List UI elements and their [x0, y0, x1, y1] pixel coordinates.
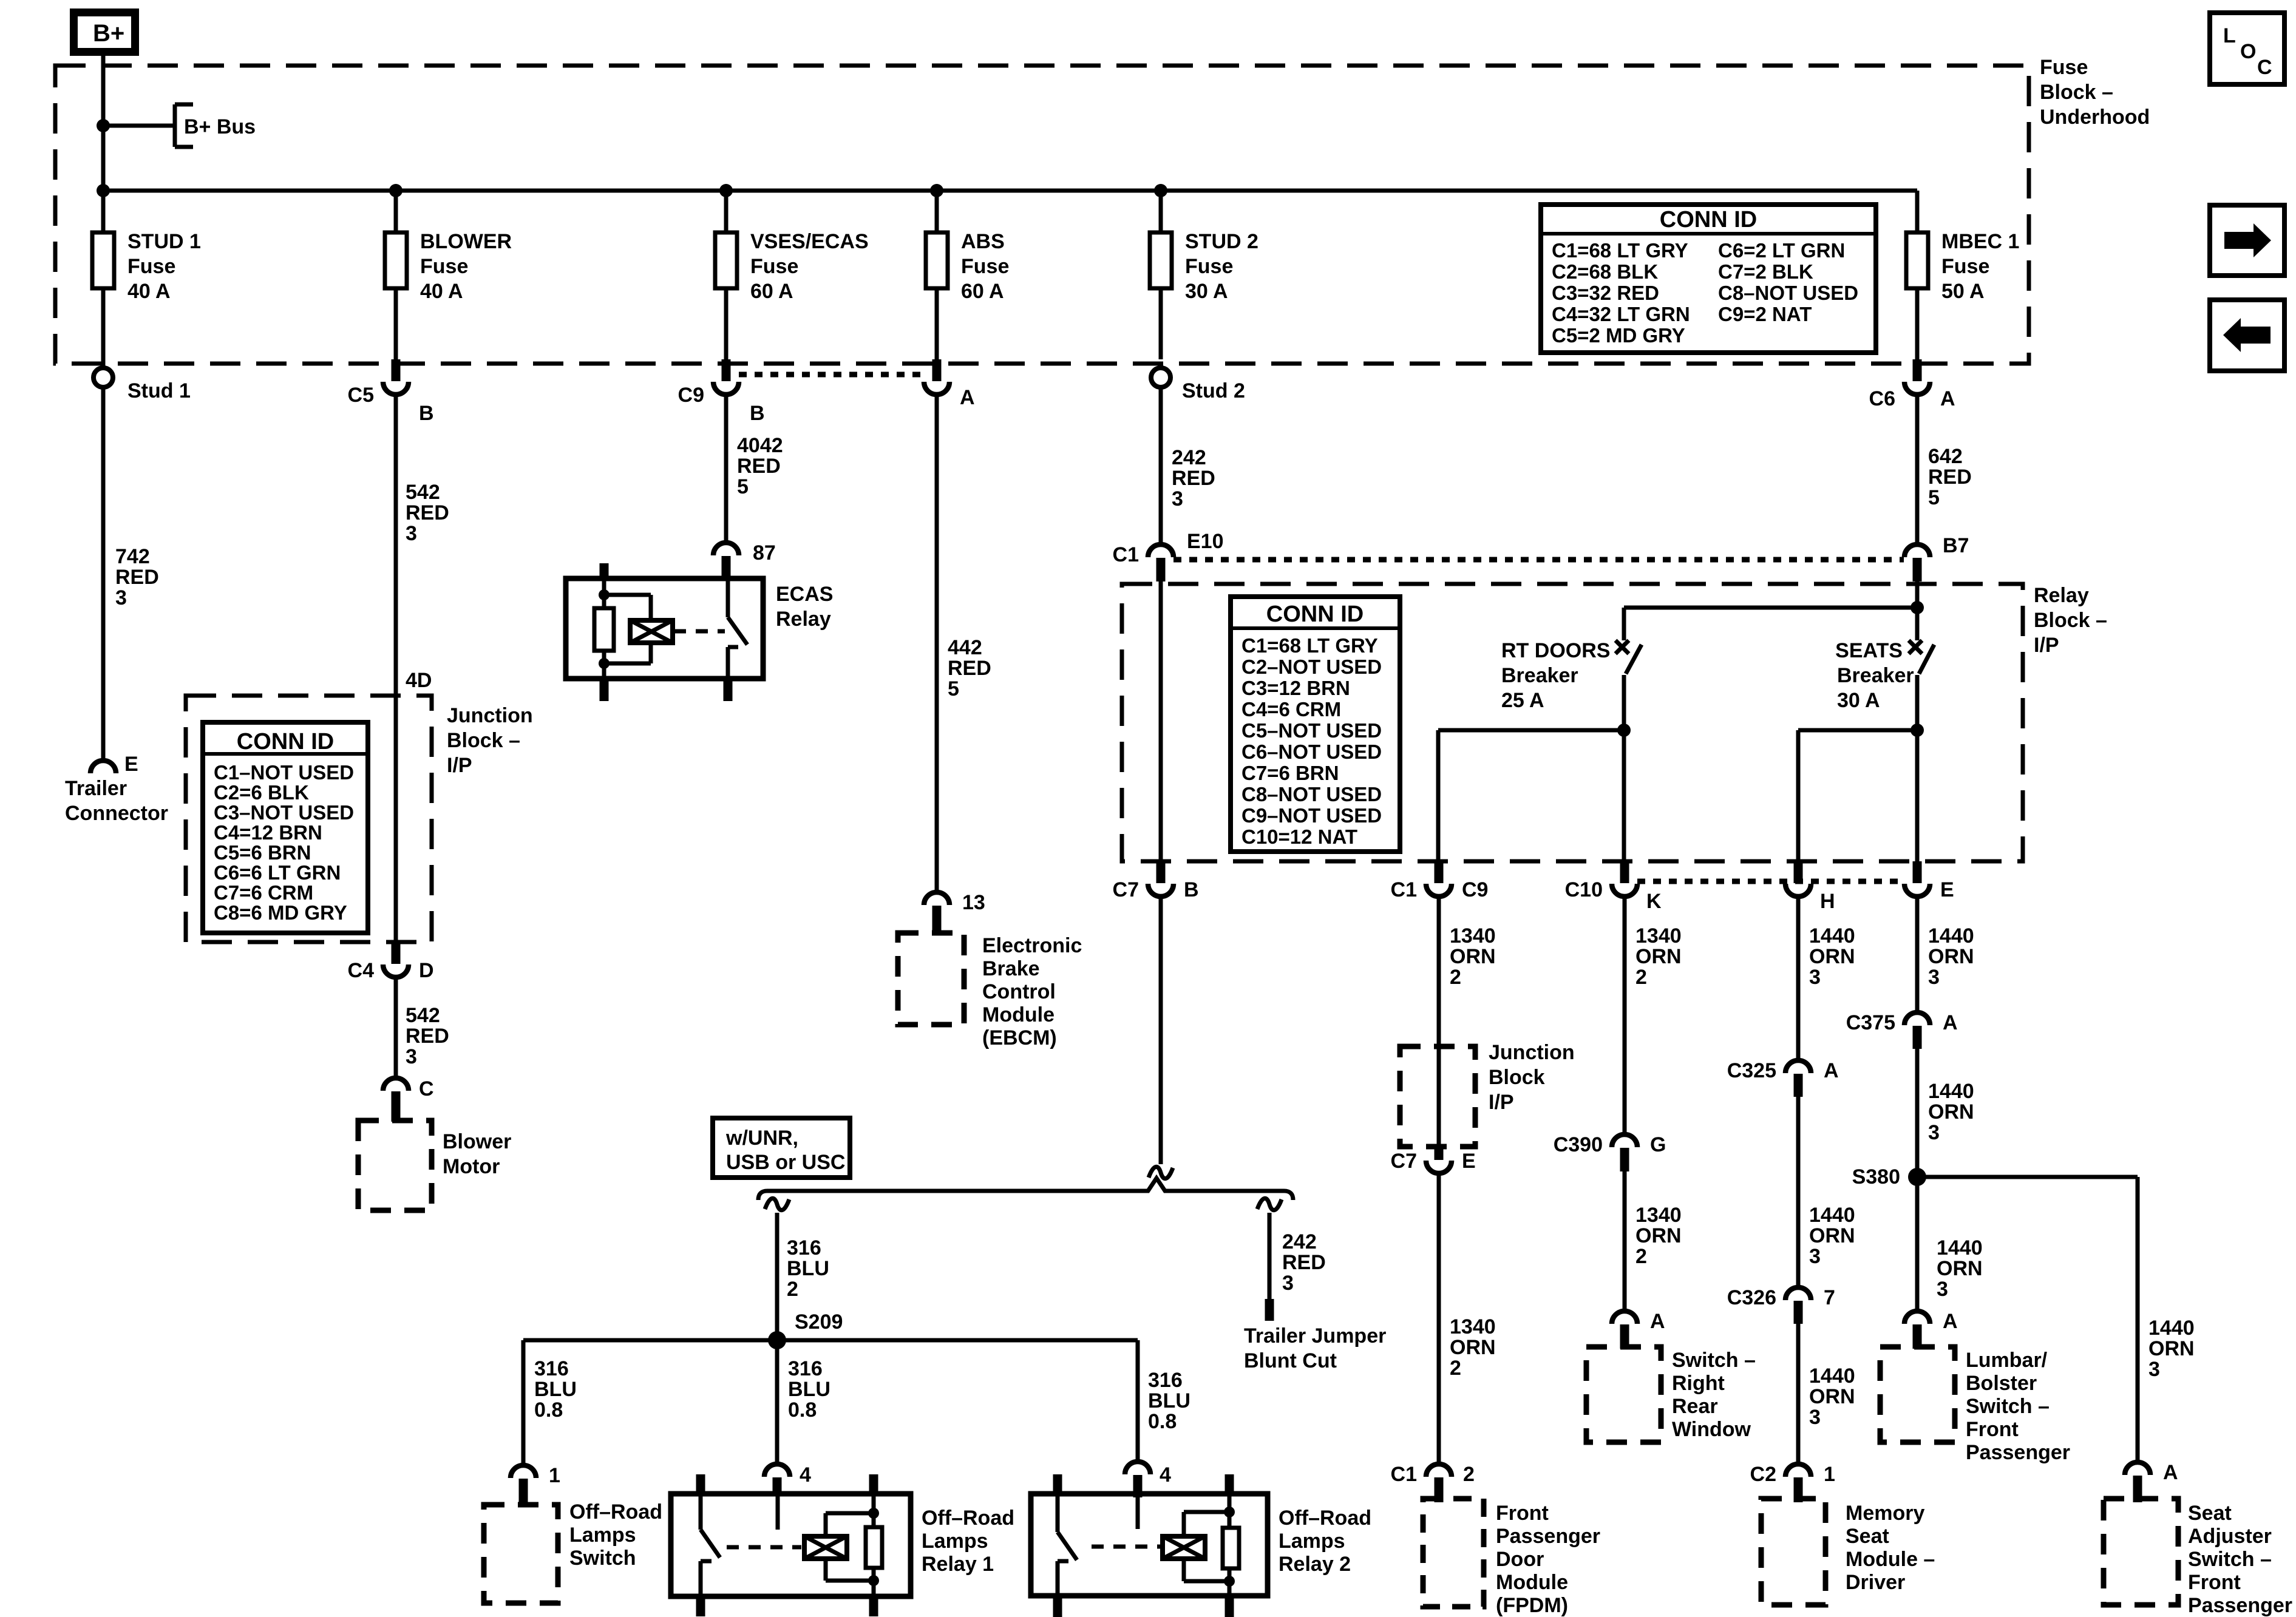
svg-text:0.8: 0.8 [1148, 1410, 1177, 1433]
svg-text:C8–NOT USED: C8–NOT USED [1718, 282, 1858, 304]
svg-text:G: G [1650, 1133, 1666, 1156]
svg-text:C1: C1 [1391, 878, 1417, 901]
svg-text:Blunt Cut: Blunt Cut [1244, 1349, 1337, 1372]
svg-text:E: E [124, 753, 138, 776]
svg-text:RED: RED [115, 566, 159, 589]
svg-text:60 A: 60 A [961, 280, 1004, 303]
svg-text:4: 4 [1160, 1463, 1171, 1486]
svg-text:ABS: ABS [961, 230, 1005, 253]
svg-text:BLU: BLU [787, 1257, 829, 1280]
svg-text:I/P: I/P [1489, 1091, 1514, 1114]
svg-text:Relay 2: Relay 2 [1279, 1553, 1351, 1576]
svg-text:40 A: 40 A [420, 280, 463, 303]
svg-text:0.8: 0.8 [534, 1398, 563, 1422]
svg-text:Brake: Brake [982, 957, 1040, 980]
svg-text:1440: 1440 [1809, 1204, 1855, 1227]
svg-text:E: E [1462, 1150, 1476, 1173]
svg-text:Switch –: Switch – [1966, 1395, 2050, 1418]
svg-text:C1–NOT USED: C1–NOT USED [214, 761, 354, 784]
svg-text:E10: E10 [1187, 530, 1224, 553]
svg-text:Block –: Block – [447, 729, 520, 752]
svg-text:1440: 1440 [1809, 1364, 1855, 1388]
svg-text:RED: RED [1928, 466, 1972, 489]
svg-text:C7: C7 [1391, 1150, 1417, 1173]
svg-text:1340: 1340 [1450, 924, 1496, 947]
svg-text:5: 5 [737, 475, 749, 498]
svg-text:30 A: 30 A [1185, 280, 1228, 303]
svg-text:CONN ID: CONN ID [237, 729, 334, 754]
svg-text:C4=32 LT GRN: C4=32 LT GRN [1552, 303, 1690, 325]
svg-text:3: 3 [2148, 1358, 2160, 1381]
svg-text:CONN ID: CONN ID [1266, 602, 1364, 627]
svg-text:4D: 4D [406, 669, 432, 692]
svg-text:RED: RED [948, 657, 991, 680]
svg-text:Connector: Connector [65, 802, 168, 825]
svg-text:ORN: ORN [1635, 1224, 1682, 1247]
svg-text:ORN: ORN [1928, 1100, 1974, 1124]
svg-text:RED: RED [1282, 1251, 1326, 1274]
svg-text:MBEC 1: MBEC 1 [1941, 230, 2019, 253]
svg-text:Off–Road: Off–Road [569, 1500, 662, 1524]
svg-text:Breaker: Breaker [1501, 664, 1578, 687]
svg-text:Right: Right [1672, 1372, 1725, 1395]
svg-text:316: 316 [1148, 1369, 1183, 1392]
svg-text:C2: C2 [1750, 1463, 1776, 1486]
svg-text:442: 442 [948, 636, 982, 659]
svg-text:C10: C10 [1565, 878, 1603, 901]
svg-text:60 A: 60 A [750, 280, 793, 303]
svg-text:RED: RED [406, 1025, 449, 1048]
svg-text:(EBCM): (EBCM) [982, 1026, 1057, 1049]
svg-text:Underhood: Underhood [2040, 106, 2150, 129]
svg-text:RED: RED [737, 455, 781, 478]
svg-text:(FPDM): (FPDM) [1496, 1594, 1568, 1617]
svg-text:40 A: 40 A [127, 280, 171, 303]
svg-text:C1=68 LT GRY: C1=68 LT GRY [1241, 634, 1378, 657]
svg-text:C: C [419, 1077, 434, 1100]
svg-text:Lamps: Lamps [1279, 1530, 1345, 1553]
svg-text:Stud 1: Stud 1 [127, 379, 191, 402]
svg-text:ORN: ORN [1450, 1336, 1496, 1359]
svg-text:C375: C375 [1846, 1011, 1895, 1034]
svg-text:C326: C326 [1727, 1286, 1776, 1309]
svg-text:C1: C1 [1113, 543, 1139, 566]
svg-text:Seat: Seat [2188, 1502, 2232, 1525]
svg-text:Block –: Block – [2034, 609, 2107, 632]
svg-text:Window: Window [1672, 1418, 1751, 1441]
svg-text:1440: 1440 [1937, 1236, 1983, 1259]
svg-text:C6=2 LT GRN: C6=2 LT GRN [1718, 239, 1845, 262]
svg-text:Driver: Driver [1846, 1571, 1905, 1594]
svg-text:Front: Front [1496, 1502, 1549, 1525]
svg-text:Front: Front [2188, 1571, 2241, 1594]
svg-text:C: C [2257, 56, 2272, 79]
svg-text:Electronic: Electronic [982, 934, 1082, 957]
svg-text:C390: C390 [1554, 1133, 1603, 1156]
svg-text:C7=2 BLK: C7=2 BLK [1718, 260, 1813, 283]
svg-text:Module: Module [1496, 1571, 1568, 1594]
svg-text:A: A [1943, 1310, 1958, 1333]
svg-text:Block –: Block – [2040, 81, 2113, 104]
svg-text:50 A: 50 A [1941, 280, 1985, 303]
svg-text:87: 87 [753, 541, 776, 564]
svg-text:Module –: Module – [1846, 1548, 1935, 1571]
svg-text:C2=6 BLK: C2=6 BLK [214, 781, 309, 804]
svg-text:Relay: Relay [776, 608, 831, 631]
svg-text:1340: 1340 [1635, 1204, 1682, 1227]
svg-text:ORN: ORN [1635, 945, 1682, 968]
svg-text:RED: RED [406, 501, 449, 524]
svg-text:S380: S380 [1852, 1165, 1900, 1188]
svg-text:Block: Block [1489, 1066, 1545, 1089]
svg-text:L: L [2223, 24, 2236, 47]
svg-text:1340: 1340 [1635, 924, 1682, 947]
svg-text:C9: C9 [1462, 878, 1488, 901]
svg-text:B: B [750, 402, 765, 425]
svg-text:3: 3 [1809, 1406, 1821, 1429]
svg-text:USB or USC: USB or USC [726, 1151, 845, 1174]
svg-text:642: 642 [1928, 445, 1963, 468]
svg-text:Relay: Relay [2034, 584, 2089, 607]
svg-text:C7=6 BRN: C7=6 BRN [1241, 762, 1339, 784]
svg-text:2: 2 [1635, 966, 1647, 989]
svg-text:3: 3 [406, 1045, 417, 1068]
svg-text:3: 3 [1172, 487, 1183, 510]
svg-text:542: 542 [406, 1004, 440, 1027]
svg-text:Lamps: Lamps [569, 1524, 636, 1547]
svg-text:242: 242 [1282, 1230, 1317, 1253]
svg-text:Blower: Blower [443, 1130, 511, 1153]
svg-text:C1=68 LT GRY: C1=68 LT GRY [1552, 239, 1688, 262]
svg-text:STUD 1: STUD 1 [127, 230, 201, 253]
svg-text:Fuse: Fuse [127, 255, 175, 278]
svg-text:3: 3 [1282, 1272, 1294, 1295]
svg-text:C4: C4 [348, 959, 375, 982]
svg-text:13: 13 [962, 891, 985, 914]
svg-text:B: B [419, 402, 434, 425]
svg-text:C7=6 CRM: C7=6 CRM [214, 881, 313, 904]
svg-text:Fuse: Fuse [961, 255, 1009, 278]
svg-text:B+ Bus: B+ Bus [184, 115, 256, 138]
svg-text:ORN: ORN [2148, 1337, 2195, 1360]
svg-text:2: 2 [1635, 1245, 1647, 1268]
svg-text:BLU: BLU [788, 1378, 830, 1401]
svg-text:S209: S209 [795, 1310, 843, 1334]
svg-text:7: 7 [1824, 1286, 1835, 1309]
svg-text:Off–Road: Off–Road [922, 1507, 1014, 1530]
svg-text:742: 742 [115, 545, 150, 568]
svg-text:2: 2 [1463, 1463, 1475, 1486]
svg-text:3: 3 [115, 586, 127, 609]
svg-text:C325: C325 [1727, 1059, 1776, 1082]
svg-text:30 A: 30 A [1837, 689, 1880, 712]
svg-text:316: 316 [534, 1357, 569, 1380]
svg-text:C8–NOT USED: C8–NOT USED [1241, 783, 1382, 805]
svg-text:Switch: Switch [569, 1547, 636, 1570]
svg-text:Passenger: Passenger [1966, 1441, 2070, 1464]
svg-text:Door: Door [1496, 1548, 1544, 1571]
svg-text:K: K [1646, 890, 1662, 913]
svg-text:C10=12 NAT: C10=12 NAT [1241, 825, 1357, 848]
svg-text:316: 316 [788, 1357, 823, 1380]
svg-text:Passenger: Passenger [2188, 1594, 2292, 1617]
svg-text:5: 5 [948, 677, 959, 700]
svg-text:SEATS: SEATS [1835, 639, 1903, 662]
svg-text:w/UNR,: w/UNR, [725, 1127, 798, 1150]
svg-text:2: 2 [787, 1278, 798, 1301]
svg-text:A: A [2163, 1461, 2178, 1484]
svg-text:CONN ID: CONN ID [1660, 207, 1757, 232]
svg-text:Fuse: Fuse [420, 255, 468, 278]
svg-text:4: 4 [800, 1463, 811, 1486]
svg-text:Switch –: Switch – [2188, 1548, 2272, 1571]
svg-text:4042: 4042 [737, 434, 783, 457]
svg-text:Passenger: Passenger [1496, 1525, 1600, 1548]
svg-text:C5=2 MD GRY: C5=2 MD GRY [1552, 324, 1685, 347]
svg-text:1440: 1440 [1928, 924, 1974, 947]
svg-text:2: 2 [1450, 966, 1461, 989]
svg-text:Fuse: Fuse [1185, 255, 1233, 278]
svg-text:3: 3 [1928, 966, 1940, 989]
svg-text:B+: B+ [93, 20, 124, 47]
svg-text:1440: 1440 [1809, 924, 1855, 947]
svg-text:C9=2 NAT: C9=2 NAT [1718, 303, 1812, 325]
svg-text:3: 3 [406, 522, 417, 545]
svg-text:C3=32 RED: C3=32 RED [1552, 282, 1659, 304]
svg-text:RT DOORS: RT DOORS [1501, 639, 1610, 662]
svg-text:C5–NOT USED: C5–NOT USED [1241, 719, 1382, 742]
svg-text:Trailer Jumper: Trailer Jumper [1244, 1324, 1386, 1347]
svg-text:1: 1 [549, 1464, 560, 1487]
svg-text:C9–NOT USED: C9–NOT USED [1241, 804, 1382, 827]
svg-text:1340: 1340 [1450, 1315, 1496, 1338]
svg-text:ORN: ORN [1809, 1385, 1855, 1408]
svg-text:A: A [1943, 1011, 1958, 1034]
svg-text:Fuse: Fuse [2040, 56, 2088, 79]
svg-text:Trailer: Trailer [65, 777, 127, 800]
svg-text:Module: Module [982, 1003, 1055, 1026]
svg-text:ORN: ORN [1809, 1224, 1855, 1247]
svg-text:STUD 2: STUD 2 [1185, 230, 1258, 253]
svg-text:BLOWER: BLOWER [420, 230, 512, 253]
svg-text:C4=12 BRN: C4=12 BRN [214, 821, 322, 844]
svg-text:H: H [1820, 890, 1835, 913]
svg-text:5: 5 [1928, 486, 1940, 509]
svg-text:C5=6 BRN: C5=6 BRN [214, 841, 311, 864]
svg-text:C8=6 MD GRY: C8=6 MD GRY [214, 901, 347, 924]
svg-text:E: E [1940, 878, 1954, 901]
svg-text:O: O [2240, 40, 2256, 63]
svg-text:2: 2 [1450, 1357, 1461, 1380]
svg-text:1440: 1440 [1928, 1080, 1974, 1103]
svg-text:RED: RED [1172, 467, 1215, 490]
svg-text:Breaker: Breaker [1837, 664, 1914, 687]
svg-text:Front: Front [1966, 1418, 2019, 1441]
svg-text:ORN: ORN [1937, 1257, 1983, 1280]
svg-text:ORN: ORN [1809, 945, 1855, 968]
svg-text:C2–NOT USED: C2–NOT USED [1241, 656, 1382, 678]
svg-text:A: A [1940, 387, 1955, 410]
svg-text:I/P: I/P [2034, 634, 2059, 657]
svg-text:Switch –: Switch – [1672, 1349, 1756, 1372]
svg-text:Relay 1: Relay 1 [922, 1553, 994, 1576]
svg-text:C9: C9 [678, 384, 704, 407]
svg-text:C3=12 BRN: C3=12 BRN [1241, 677, 1350, 699]
svg-text:C4=6 CRM: C4=6 CRM [1241, 698, 1341, 720]
svg-text:BLU: BLU [534, 1378, 577, 1401]
svg-text:3: 3 [1809, 966, 1821, 989]
svg-text:Fuse: Fuse [750, 255, 798, 278]
svg-text:1: 1 [1824, 1463, 1835, 1486]
svg-text:Junction: Junction [447, 704, 533, 727]
svg-text:242: 242 [1172, 446, 1206, 469]
svg-text:3: 3 [1809, 1245, 1821, 1268]
svg-text:C1: C1 [1391, 1463, 1417, 1486]
svg-text:C7: C7 [1113, 878, 1139, 901]
svg-text:Seat: Seat [1846, 1525, 1889, 1548]
svg-text:3: 3 [1928, 1121, 1940, 1144]
svg-text:Control: Control [982, 980, 1056, 1003]
svg-text:1440: 1440 [2148, 1317, 2195, 1340]
svg-text:B7: B7 [1943, 534, 1969, 557]
svg-text:0.8: 0.8 [788, 1398, 817, 1422]
svg-text:Memory: Memory [1846, 1502, 1924, 1525]
svg-text:A: A [1650, 1310, 1665, 1333]
svg-text:VSES/ECAS: VSES/ECAS [750, 230, 869, 253]
svg-text:C6: C6 [1869, 387, 1895, 410]
svg-text:D: D [419, 959, 434, 982]
svg-text:25 A: 25 A [1501, 689, 1544, 712]
svg-text:Lamps: Lamps [922, 1530, 988, 1553]
svg-text:C5: C5 [348, 384, 374, 407]
svg-text:C6=6 LT GRN: C6=6 LT GRN [214, 861, 341, 884]
svg-text:C3–NOT USED: C3–NOT USED [214, 801, 354, 824]
svg-text:Junction: Junction [1489, 1041, 1575, 1064]
svg-text:A: A [960, 386, 975, 409]
svg-text:C2=68 BLK: C2=68 BLK [1552, 260, 1658, 283]
svg-text:B: B [1184, 878, 1199, 901]
svg-text:3: 3 [1937, 1278, 1948, 1301]
svg-text:ORN: ORN [1928, 945, 1974, 968]
svg-text:316: 316 [787, 1236, 821, 1259]
svg-text:I/P: I/P [447, 754, 472, 777]
svg-text:A: A [1824, 1059, 1839, 1082]
svg-text:Adjuster: Adjuster [2188, 1525, 2272, 1548]
svg-text:Off–Road: Off–Road [1279, 1507, 1371, 1530]
svg-text:Fuse: Fuse [1941, 255, 1989, 278]
svg-text:ORN: ORN [1450, 945, 1496, 968]
svg-text:BLU: BLU [1148, 1389, 1190, 1412]
svg-text:Bolster: Bolster [1966, 1372, 2037, 1395]
svg-text:542: 542 [406, 481, 440, 504]
svg-text:Rear: Rear [1672, 1395, 1718, 1418]
svg-text:Motor: Motor [443, 1155, 500, 1178]
svg-text:Lumbar/: Lumbar/ [1966, 1349, 2048, 1372]
svg-text:C6–NOT USED: C6–NOT USED [1241, 741, 1382, 763]
svg-text:Stud 2: Stud 2 [1182, 379, 1245, 402]
svg-text:ECAS: ECAS [776, 583, 833, 606]
